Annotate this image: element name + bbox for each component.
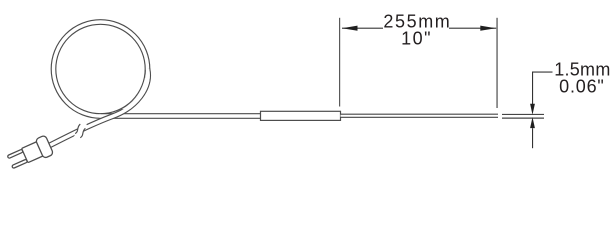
svg-text:0.06": 0.06" bbox=[559, 77, 604, 97]
svg-text:10": 10" bbox=[401, 29, 432, 49]
